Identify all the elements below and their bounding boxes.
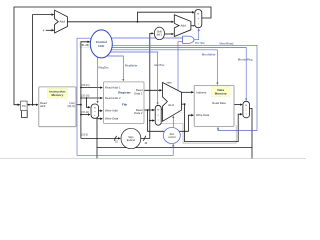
svg-text:Extend: Extend <box>127 138 136 142</box>
svg-text:Add: Add <box>60 20 66 24</box>
svg-text:Data 2: Data 2 <box>134 111 143 115</box>
svg-text:Read Data: Read Data <box>212 101 226 105</box>
svg-text:Write Addr: Write Addr <box>105 109 118 113</box>
svg-text:PC: PC <box>22 104 26 108</box>
svg-text:addr: addr <box>40 104 46 108</box>
svg-text:[15-0]: [15-0] <box>82 134 89 137</box>
svg-text:MemtoReg: MemtoReg <box>238 58 253 62</box>
svg-text:[25-21]: [25-21] <box>82 84 90 87</box>
svg-text:Write Data: Write Data <box>105 117 119 121</box>
svg-text:ALUSrc: ALUSrc <box>154 63 165 67</box>
svg-text:Memory: Memory <box>215 92 227 96</box>
svg-text:left 2: left 2 <box>157 34 163 37</box>
svg-text:Unit: Unit <box>98 44 104 48</box>
svg-text:Write Data: Write Data <box>196 113 210 117</box>
svg-text:[31-26]: [31-26] <box>81 44 89 47</box>
svg-text:Sign: Sign <box>128 135 134 139</box>
svg-text:Read Addr 1: Read Addr 1 <box>105 86 121 90</box>
svg-text:[20-16]: [20-16] <box>82 94 90 97</box>
svg-text:x: x <box>94 115 95 117</box>
svg-text:u: u <box>246 109 247 111</box>
svg-text:File: File <box>122 103 128 107</box>
svg-text:M: M <box>197 13 199 15</box>
svg-text:PC Src: PC Src <box>195 41 205 45</box>
svg-text:RegWrite: RegWrite <box>125 63 138 67</box>
svg-text:Address: Address <box>196 90 207 94</box>
svg-text:control: control <box>168 136 176 139</box>
svg-text:Register: Register <box>118 90 131 94</box>
svg-text:ALU: ALU <box>168 103 174 107</box>
svg-text:u: u <box>158 115 159 117</box>
svg-text:Read Addr 2: Read Addr 2 <box>105 96 121 100</box>
svg-text:MemWrite: MemWrite <box>202 52 216 56</box>
svg-text:u: u <box>94 111 95 113</box>
svg-text:RegDst: RegDst <box>99 66 109 70</box>
svg-text:Add: Add <box>181 24 187 28</box>
svg-text:[15-11]: [15-11] <box>82 111 90 114</box>
svg-text:MemRead: MemRead <box>220 42 234 46</box>
svg-text:[31-0]: [31-0] <box>68 104 75 108</box>
svg-text:Memory: Memory <box>51 93 63 97</box>
svg-text:x: x <box>158 120 159 122</box>
svg-text:zero: zero <box>167 80 173 84</box>
svg-text:x: x <box>246 114 247 116</box>
svg-text:Data 1: Data 1 <box>134 92 143 96</box>
